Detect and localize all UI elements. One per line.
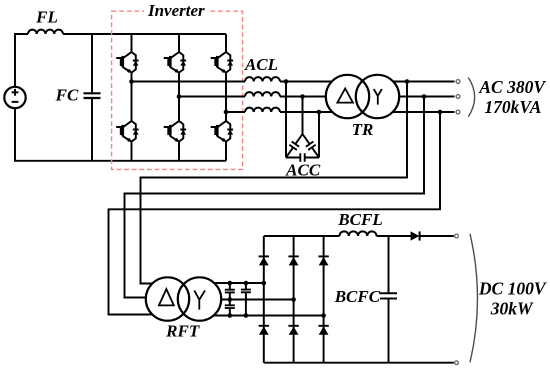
node leg3 input	[321, 313, 326, 318]
transistor Q6	[211, 121, 233, 142]
node feedback tap B	[422, 94, 427, 99]
svg-text:170kVA: 170kVA	[484, 97, 541, 117]
bracket AC output	[468, 78, 474, 117]
svg-text:30kW: 30kW	[490, 299, 534, 319]
terminal DC positive	[455, 234, 459, 238]
wire RFT secondary bottom	[185, 315, 324, 317]
svg-text:BCFC: BCFC	[334, 287, 381, 306]
wire from dc source to bottom rail	[15, 108, 226, 161]
diode D7 output	[411, 231, 420, 240]
inverter enclosure (dashed box)	[112, 11, 243, 169]
svg-text:ACL: ACL	[244, 55, 278, 74]
wire feedback tap A	[141, 82, 408, 284]
svg-text:TR: TR	[352, 120, 374, 139]
wire rectifier leg 3	[323, 236, 325, 363]
wire from dc source to top rail	[15, 34, 28, 87]
node leg1 input	[262, 281, 267, 286]
wire inverter leg A	[131, 34, 133, 161]
node ACC tap B	[300, 94, 305, 99]
capacitor ACC bottom	[286, 157, 319, 159]
inductor BCFL	[340, 231, 377, 236]
capacitor ACC right (slant)	[303, 134, 320, 158]
node ACC tap C	[317, 110, 322, 115]
capacitor BCFC	[388, 236, 390, 363]
wire rectifier bottom rail	[264, 362, 454, 364]
bracket DC output	[470, 234, 478, 363]
label Inverter	[144, 1, 210, 20]
node ACC tap A	[284, 79, 289, 84]
node phase B at inverter	[177, 94, 182, 99]
inductor ACL phase A	[245, 77, 280, 81]
transformer RFT	[146, 277, 221, 320]
diode D3	[288, 256, 298, 265]
diode D1	[259, 256, 269, 265]
svg-text:BCFL: BCFL	[337, 210, 382, 229]
node phase C at inverter	[224, 110, 229, 115]
svg-text:FL: FL	[35, 8, 58, 27]
wire ACC tap B	[302, 97, 304, 135]
svg-text:RFT: RFT	[165, 322, 200, 341]
terminal DC negative	[455, 361, 459, 365]
wire top rail	[63, 33, 226, 35]
node feedback tap A	[405, 79, 410, 84]
node leg2 input	[291, 297, 296, 302]
diode D4	[288, 326, 298, 335]
node feedback tap C	[438, 110, 443, 115]
capacitor string C2	[245, 283, 247, 289]
svg-text:DC 100V: DC 100V	[478, 278, 547, 298]
capacitor string C1 upper	[229, 283, 231, 289]
wire phase C line	[226, 111, 455, 113]
terminal AC phase B	[456, 95, 460, 99]
wire ACC tap C	[318, 112, 320, 158]
capacitor FC	[91, 34, 93, 161]
node C2 top	[244, 281, 249, 286]
node C2 bottom	[244, 313, 249, 318]
wire RFT secondary top	[185, 282, 264, 284]
inductor ACL phase C	[245, 108, 280, 112]
wire rectifier leg 2	[293, 236, 295, 363]
wire inverter leg B	[178, 34, 180, 161]
diode D6	[318, 326, 328, 335]
terminal AC phase A	[456, 80, 460, 84]
terminal AC phase C	[456, 110, 460, 114]
dc source V1	[4, 87, 25, 108]
transistor Q4	[164, 121, 186, 142]
wire feedback tap C	[109, 112, 441, 315]
wire phase B line	[179, 96, 455, 98]
svg-text:FC: FC	[55, 86, 79, 105]
wire feedback tap B	[125, 97, 425, 298]
diode D5	[318, 256, 328, 265]
wire RFT secondary mid	[185, 299, 294, 301]
capacitor ACC left (slant)	[286, 134, 303, 158]
wire rectifier leg 1	[263, 236, 265, 363]
inductor ACL phase B	[245, 92, 280, 96]
node phase A at inverter	[129, 79, 134, 84]
transformer TR	[326, 75, 399, 118]
node C1 top	[228, 281, 233, 286]
transistor Q1	[116, 52, 138, 73]
node C1 bottom	[228, 313, 233, 318]
capacitor string C1 lower	[225, 305, 235, 308]
transistor Q2	[116, 121, 138, 142]
diode D2	[259, 326, 269, 335]
transistor Q3	[164, 52, 186, 73]
wire ACC tap A	[285, 82, 287, 158]
wire inverter leg C	[225, 34, 227, 161]
wire rectifier top rail	[264, 235, 411, 237]
svg-text:AC 380V: AC 380V	[478, 77, 546, 97]
svg-text:Inverter: Inverter	[147, 1, 205, 20]
node C1 mid	[228, 297, 233, 302]
transistor Q5	[211, 52, 233, 73]
wire phase A line	[132, 81, 455, 83]
inductor FL	[28, 30, 63, 34]
